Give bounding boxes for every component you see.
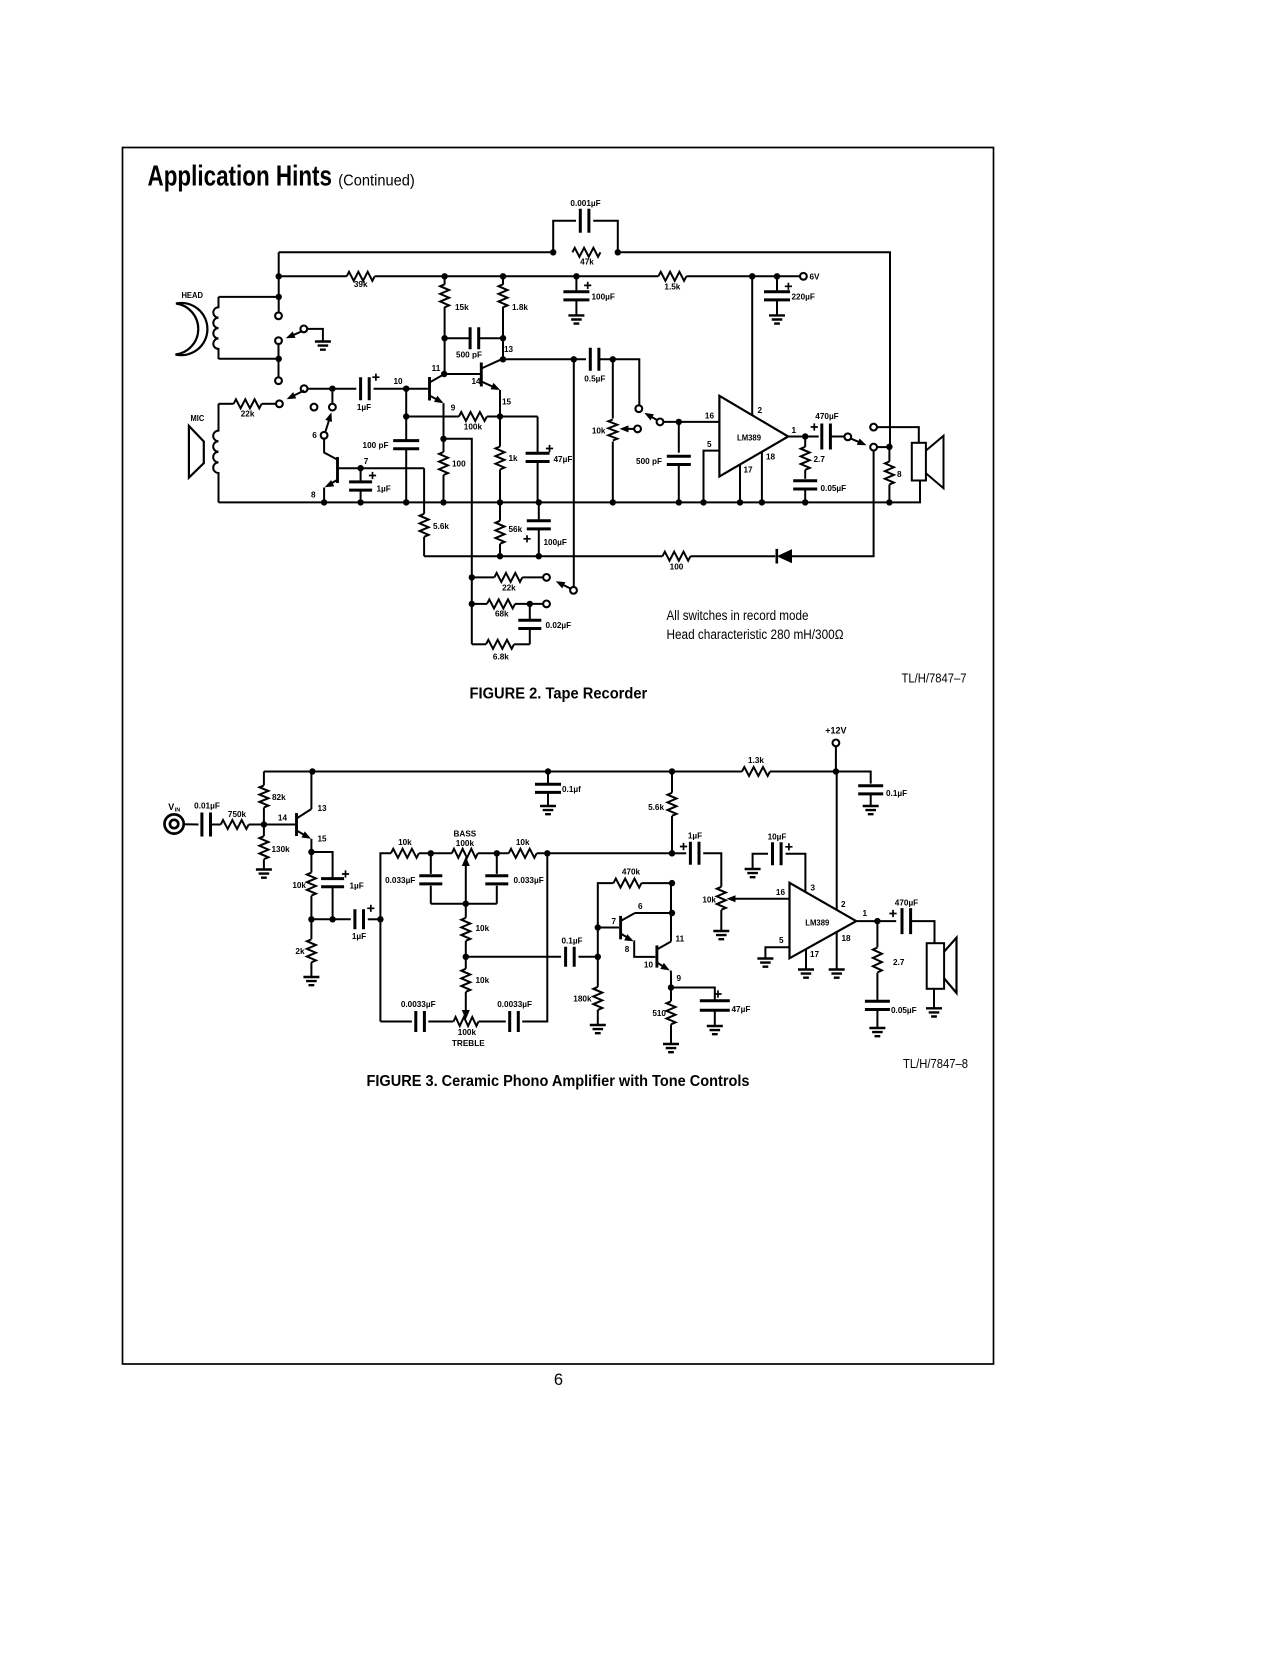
svg-text:Application Hints: Application Hints [148,161,333,193]
svg-text:TL/H/7847–7: TL/H/7847–7 [902,672,967,686]
svg-text:LM389: LM389 [805,918,829,927]
ground 0.1uF left [540,806,556,814]
capacitor 0.1uF right [858,786,883,794]
tape head crescent [176,303,208,355]
wire top feedback rail [279,251,554,253]
svg-text:17: 17 [744,466,754,475]
node 8ohm rail [886,499,892,505]
node 68k cap [527,601,533,607]
svg-text:5.6k: 5.6k [648,803,664,812]
wire node9 row fig3 [671,988,715,1000]
terminal 6V [800,273,807,280]
capacitor 0.5uF [590,348,599,371]
resistor 5.6k [420,514,429,537]
svg-text:100µF: 100µF [544,538,567,547]
svg-text:0.033µF: 0.033µF [514,876,544,885]
node 9 junction [403,413,409,419]
svg-text:Head characteristic 280 mH/300: Head characteristic 280 mH/300Ω [667,627,844,642]
node 100pF rail [403,499,409,505]
pin 5 wire [704,451,720,503]
svg-text:0.01µF: 0.01µF [194,802,220,811]
node pin17 rail [737,499,743,505]
svg-text:0.1µf: 0.1µf [562,785,581,794]
capacitor 100uF agc [538,502,540,520]
resistor 39k [347,272,375,281]
svg-text:8: 8 [625,945,630,954]
svg-text:510: 510 [652,1009,666,1018]
svg-text:10k: 10k [476,976,490,985]
svg-text:750k: 750k [228,810,247,819]
ground 220uF [769,315,785,323]
resistor 1.3k [742,767,770,776]
node 0.1uF top [545,768,551,774]
svg-text:15: 15 [318,835,328,844]
wire node10 down [405,389,407,440]
capacitor 0.05uF fig2 [793,481,817,489]
svg-text:14: 14 [278,814,288,823]
node bass wiper [463,901,469,907]
capacitor 0.001uF [553,221,576,253]
pin 5 wire fig3 [765,947,789,958]
svg-text:1µF: 1µF [688,832,702,841]
ground pin18 fig3 [829,970,845,978]
wire Q11 emitter down [443,403,445,439]
node 100uF agc [536,553,542,559]
svg-text:9: 9 [677,974,682,983]
node 100 rail [440,499,446,505]
transistor Q5 pins 7 6 8 [619,916,622,939]
capacitor 1uF pre-amp out [672,852,686,854]
speaker fig2 [912,443,926,481]
node 9 [668,984,674,990]
svg-text:13: 13 [318,804,328,813]
inductor mic coil [213,404,218,503]
wire Q11 collector up [444,338,446,374]
svg-text:HEAD: HEAD [181,291,203,300]
svg-text:1µF: 1µF [357,403,371,412]
svg-text:TL/H/7847–8: TL/H/7847–8 [903,1057,968,1071]
svg-text:1.5k: 1.5k [664,283,680,292]
wire node7 to 5.6k [423,468,425,514]
svg-text:14: 14 [471,377,481,386]
node output fig3 [874,918,880,924]
wire S5 record to node [877,446,889,448]
svg-text:3: 3 [811,884,816,893]
node 10 [403,386,409,392]
svg-text:FIGURE 2. Tape Recorder: FIGURE 2. Tape Recorder [470,685,648,702]
svg-text:0.05µF: 0.05µF [821,484,847,493]
resistor 130k [263,825,265,837]
svg-text:6: 6 [638,902,643,911]
page border frame [123,148,994,1365]
svg-text:0.1µF: 0.1µF [561,937,582,946]
wire play contact to speaker [877,427,919,443]
capacitor 1uF input [361,377,370,400]
resistor 15k [444,276,446,284]
svg-text:1.3k: 1.3k [748,756,764,765]
wire Q5 emitter to Q6 base [634,941,656,957]
svg-text:16: 16 [705,412,715,421]
resistor 56k [499,502,501,520]
capacitor 0.1uF coupling fig3 [566,947,575,967]
svg-text:+12V: +12V [825,726,846,736]
wire S3 contact stem [331,392,333,404]
svg-text:1k: 1k [509,454,519,463]
capacitor 0.01uF [202,813,211,837]
capacitor 0.033uF right [496,853,498,874]
wire Q13 collector [310,772,312,810]
node Q13 collector top [309,768,315,774]
switch S6 wiper [570,587,577,594]
ground 510 [663,1044,679,1052]
node 500pF right [500,335,506,341]
node 470k right [669,880,675,886]
svg-text:100k: 100k [464,423,483,432]
ground 10uF [745,869,761,877]
resistor 8 ohm [888,447,890,462]
svg-text:0.5µF: 0.5µF [584,375,605,384]
potentiometer BASS 100k [452,849,478,858]
svg-text:10k: 10k [516,838,530,847]
capacitor 1uF emitter bypass [321,879,344,887]
svg-text:22k: 22k [241,410,255,419]
transistor Q11 [428,377,431,401]
resistor 6.8k [472,643,486,645]
node head bottom [276,356,282,362]
wire cap to node 10 [374,388,428,390]
resistor 1.5k [658,272,686,281]
svg-text:2: 2 [841,900,846,909]
node 500pF left [441,335,447,341]
node 853 right [669,850,675,856]
resistor 2k [310,919,312,939]
transistor Q14 [480,363,483,387]
svg-text:1µF: 1µF [350,882,364,891]
wire ground rail fig2 [219,481,921,503]
svg-text:5: 5 [707,440,712,449]
svg-text:100k: 100k [458,1028,477,1037]
wire diode to switch [792,451,874,557]
node 1k rail [497,499,503,505]
pin 18 wire [761,452,763,503]
svg-text:100µF: 100µF [592,293,615,302]
node mic coupling [329,386,335,392]
switch S6 arm [560,583,571,588]
capacitor 47uF [537,417,539,454]
resistor 100k fig2 [459,412,487,421]
svg-text:0.001µF: 0.001µF [570,199,600,208]
pin 2 wire [751,276,753,415]
switch S5 wiper [844,433,851,440]
svg-text:1.8k: 1.8k [512,303,528,312]
svg-text:1: 1 [863,909,868,918]
svg-text:1: 1 [792,426,797,435]
node 15 row [497,413,503,419]
diode D1 [775,549,778,564]
ground 0.05uF fig3 [869,1028,885,1036]
node emitter bottom [308,916,314,922]
wire record bus vertical [573,359,575,587]
svg-text:180k: 180k [573,995,592,1004]
wire to coupling cap fig3 [311,918,350,920]
wire bass caps row [431,903,497,905]
pin 17 wire fig3 [805,949,807,969]
resistor 10k mid lower [465,957,467,969]
svg-text:10: 10 [644,961,654,970]
capacitor 0.1uF left [547,772,549,785]
svg-text:IN: IN [175,808,181,814]
wire S4 to pin16 [663,421,719,423]
resistor 10k bass right [478,852,509,854]
svg-text:18: 18 [766,453,776,462]
resistor 22k eq [472,576,495,578]
svg-text:8: 8 [897,470,902,479]
node 5.6k top [669,768,675,774]
svg-text:500 pF: 500 pF [456,351,482,360]
wire vin [184,823,199,825]
wire feedback vertical fig3 [598,883,614,957]
node feedback output [886,444,892,450]
svg-text:1µF: 1µF [352,932,366,941]
svg-text:13: 13 [504,345,514,354]
svg-text:500 pF: 500 pF [636,457,662,466]
svg-text:TREBLE: TREBLE [452,1039,485,1048]
wire head bottom to S1b [278,344,280,377]
node emitter fig3 [308,849,314,855]
resistor 2.7 [804,437,806,447]
wire supply row [279,275,347,277]
svg-text:82k: 82k [272,793,286,802]
wire S1 to ground [307,329,323,342]
node 0.05uF rail [802,499,808,505]
svg-text:470µF: 470µF [895,899,918,908]
wire left vertical from top rail [278,252,280,312]
switch S3 contact [329,404,336,411]
wire head bottom [219,358,279,360]
node pin18 rail [759,499,765,505]
svg-text:220µF: 220µF [792,293,815,302]
node 0.5uF right [610,356,616,362]
svg-text:10k: 10k [292,881,306,890]
wire emitter to 1uF [311,852,332,879]
svg-text:5.6k: 5.6k [433,522,449,531]
potentiometer 10k fig3 [717,887,726,910]
node 500pF rail [676,499,682,505]
svg-text:130k: 130k [272,845,291,854]
svg-text:6.8k: 6.8k [493,653,509,662]
capacitor 470uF fig3 [902,908,911,934]
pot 10k wiper arrow [624,428,634,430]
capacitor 220uF supply [776,276,778,291]
wire emitter branch [444,439,472,645]
svg-text:6: 6 [554,1371,563,1389]
svg-text:11: 11 [676,935,685,944]
speaker fig3 [927,943,944,989]
node base q1 fig3 [595,924,601,930]
pin 1 output wire [788,436,819,438]
resistor 47k [572,248,600,257]
ground 100uF [568,315,584,323]
potentiometer 10k fig2 [612,359,614,418]
resistor 68k [472,603,487,605]
switch S1b contact [275,377,282,384]
ground 47uF fig3 [707,1026,723,1034]
wire treble row left [380,1021,412,1023]
svg-text:0.0033µF: 0.0033µF [497,1000,532,1009]
ground 0.1uF right [863,806,879,814]
svg-text:39k: 39k [354,280,368,289]
svg-text:100k: 100k [456,839,475,848]
wire 470uF to speaker [911,921,935,943]
node 47k right [615,249,621,255]
capacitor 0.0033uF left [416,1011,425,1032]
node 100uF supply [573,273,579,279]
node pot rail [610,499,616,505]
node bass right [494,850,500,856]
node 13 [500,356,506,362]
terminal VIN [165,814,184,833]
transistor Q6 pins 10 11 9 [655,945,658,967]
ground 180k [590,1025,606,1033]
svg-text:100: 100 [670,563,684,572]
wire Q14 emitter down [499,390,501,417]
svg-text:100 pF: 100 pF [363,441,389,450]
svg-text:47µF: 47µF [554,455,573,464]
capacitor 1uF coupling fig3 [355,909,364,929]
switch S1 head record contact [275,312,282,319]
svg-text:10µF: 10µF [768,833,787,842]
node 1uF bottom [329,916,335,922]
ground pin17 fig3 [798,970,814,978]
wire Q5 collector row [635,912,672,914]
treble wiper arrow [462,1010,470,1020]
svg-text:16: 16 [776,888,786,897]
svg-text:11: 11 [432,364,441,373]
transistor Q13 fig3 [295,813,298,836]
svg-text:470µF: 470µF [815,412,838,421]
pin 18 wire fig3 [836,932,838,970]
node 220uF supply [774,273,780,279]
pin 2 wire fig3 [836,772,838,910]
node pin2 supply [749,273,755,279]
wire tone right vertical [522,853,547,1021]
terminal +12V [833,740,840,747]
node tone in [377,916,383,922]
svg-text:(Continued): (Continued) [338,173,415,190]
capacitor 0.033uF left [430,853,432,874]
switch S4 arm [648,415,658,420]
node 0.5uF left [571,356,577,362]
svg-text:5: 5 [779,936,784,945]
capacitor 10uF bootstrap [786,854,806,892]
svg-text:10k: 10k [592,427,606,436]
switch S5 play contact [870,424,877,431]
microphone symbol [189,426,204,478]
resistor 10k emitter [310,852,312,873]
ground 2k [303,977,319,985]
ground pin5 fig3 [757,959,773,967]
ground 10k pot [713,931,729,939]
switch S1 wiper contact [275,337,282,344]
svg-text:2k: 2k [295,947,305,956]
wire 1uF to pot [703,853,721,886]
node 47uF rail [536,499,542,505]
wire tone left vertical [380,853,391,1021]
wire Q11 collector to Q14 base [444,373,481,375]
capacitor 100uF supply bypass [575,276,577,291]
pin 1 wire fig3 [856,920,896,922]
svg-text:8: 8 [311,491,316,500]
svg-text:6V: 6V [810,273,821,282]
capacitor 100pF [393,441,419,449]
wire supply row fig3 [264,771,742,773]
svg-text:BASS: BASS [454,830,477,839]
svg-text:10k: 10k [398,838,412,847]
node 8 rail [321,499,327,505]
resistor 100 agc [663,552,691,561]
node tone right top [544,850,550,856]
resistor 750k [221,820,249,829]
switch S5 arm [851,439,862,444]
capacitor 47uF fig3 [700,1001,730,1011]
wire head top [219,296,279,298]
wire agc row [424,555,662,557]
node Q11 collector [441,371,447,377]
wire node9 row [406,416,459,418]
resistor 10k mid upper [465,904,467,918]
svg-text:1µF: 1µF [377,485,391,494]
capacitor 500pF [445,337,471,339]
svg-text:LM389: LM389 [737,434,761,443]
switch S5 record contact [870,444,877,451]
switch S2 arm [291,391,304,398]
resistor 82k [263,772,265,786]
svg-text:FIGURE 3. Ceramic Phono Amplif: FIGURE 3. Ceramic Phono Amplifier with T… [367,1073,750,1090]
ground head switch [315,342,331,350]
capacitor 500pF output side [678,422,680,453]
wire S2 to coupling cap [308,388,357,390]
node 15k top [441,273,447,279]
node 500pF2 top [676,419,682,425]
bass wiper [465,865,467,904]
node Q11 emitter row [440,436,446,442]
resistor 22k mic [219,403,234,405]
switch S2 mic contact [276,400,283,407]
op-amp U2 LM389 fig3 [790,883,857,959]
svg-text:22k: 22k [502,584,516,593]
node collector 6 [669,910,675,916]
node 22k branch [469,574,475,580]
svg-text:0.033µF: 0.033µF [385,876,415,885]
node pin5 rail [700,499,706,505]
svg-text:18: 18 [842,934,852,943]
svg-text:2.7: 2.7 [814,455,826,464]
ground 130k [256,870,272,878]
svg-text:10: 10 [393,377,403,386]
wire speaker ground [933,989,935,1009]
switch S4 wiper [657,419,664,426]
svg-text:7: 7 [364,457,369,466]
switch S4 contact [635,405,642,412]
svg-text:MIC: MIC [191,414,205,423]
node 47k left [550,249,556,255]
node 180k top [595,954,601,960]
node 1.8k top [500,273,506,279]
resistor 10k bass left [391,849,419,858]
switch S3 unused contact [311,404,318,411]
resistor 1k [499,417,501,447]
capacitor 470uF fig2 [822,424,831,450]
